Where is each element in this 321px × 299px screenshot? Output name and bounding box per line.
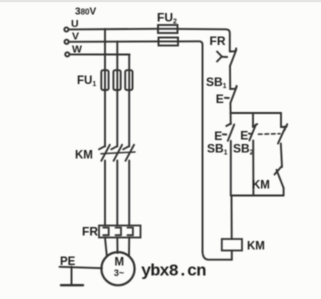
thermal relay FR heater element 1 — [103, 228, 109, 236]
svg-text:SB1: SB1 — [206, 75, 227, 90]
fuse FU2 label — [157, 11, 177, 26]
stop button SB1 NC contact — [230, 86, 237, 103]
thermal relay FR actuator symbol — [217, 52, 227, 62]
wire pole 3 lower — [128, 161, 130, 226]
wire KM coil to bottom rail — [231, 251, 233, 260]
wire SB3 NC to KM aux contact — [281, 144, 282, 168]
thermal relay FR NC contact — [230, 48, 237, 66]
wire heater 2 to motor — [116, 238, 118, 254]
contactor KM coil — [222, 239, 242, 251]
wire bottom collector line — [231, 195, 284, 197]
svg-text:KM: KM — [247, 241, 265, 253]
terminal W — [65, 52, 69, 56]
ground PE symbol — [61, 267, 83, 286]
watermark ybx8.cn — [141, 263, 206, 282]
terminal U — [64, 27, 68, 31]
fuse FU2a (upper, phase U) — [158, 25, 178, 33]
fuse FU1 label — [77, 75, 96, 88]
wire split line — [231, 112, 281, 114]
svg-text:V: V — [72, 31, 79, 43]
motor M 3-phase — [101, 252, 134, 285]
wire pole 1 lower — [104, 161, 106, 226]
svg-text:FR: FR — [82, 225, 98, 239]
stop button SB1 label — [206, 75, 227, 90]
wire split line to SB3 NC lead — [280, 113, 282, 127]
wire phase U horizontal — [69, 28, 159, 31]
jog button SB3 label — [233, 142, 254, 157]
wire drop phase U to FU1a — [104, 29, 106, 147]
jog button SB3 actuator arrow — [253, 124, 257, 127]
svg-text:E: E — [216, 92, 224, 106]
svg-text:380V: 380V — [75, 7, 96, 18]
wire KM aux to bottom line — [283, 188, 285, 196]
wire heater 3 to motor — [128, 238, 130, 257]
jog button SB3 top lead — [252, 113, 254, 127]
wire drop phase V to FU1b — [116, 42, 118, 147]
jog button SB3 NO contact blade — [249, 125, 256, 141]
contactor KM coil label — [247, 241, 265, 253]
svg-text:SB1: SB1 — [207, 142, 228, 157]
thermal relay FR heater label — [82, 225, 98, 239]
svg-text:FR: FR — [210, 34, 226, 48]
wire bottom line to KM coil — [231, 196, 233, 240]
svg-text:FU2: FU2 — [157, 11, 177, 26]
contactor KM main contact pole 3 — [123, 145, 134, 161]
top faint border line — [0, 0, 321, 2]
start button SB2 actuator E — [214, 129, 226, 143]
jog button SB3 actuator E — [240, 129, 251, 143]
wire SB2 to bottom line — [230, 141, 232, 196]
wire SB1 to split node — [229, 103, 231, 113]
thermal relay FR heater box — [99, 226, 141, 238]
svg-text:KM: KM — [252, 180, 270, 192]
start button SB2 NO contact blade — [228, 125, 234, 141]
wire SB3 NO to bottom line — [252, 141, 254, 196]
start button SB2 label — [207, 142, 228, 157]
start button SB2 top lead — [230, 113, 232, 124]
fuse FU1a — [101, 70, 108, 90]
fuse FU1c — [125, 70, 132, 90]
wire drop phase W to FU1c — [128, 55, 130, 147]
contactor KM main contact pole 1 — [99, 145, 110, 161]
svg-text:E: E — [240, 129, 248, 143]
thermal relay FR heater element 2 — [116, 228, 122, 236]
contactor KM linkage bar — [101, 152, 135, 154]
svg-text:3~: 3~ — [114, 268, 124, 278]
svg-text:U: U — [71, 18, 79, 30]
start button SB2 terminal tick — [226, 124, 231, 127]
wire phase W horizontal — [69, 53, 129, 55]
PE label — [60, 256, 76, 268]
svg-text:M: M — [115, 257, 125, 269]
contactor KM aux contact label — [252, 180, 270, 192]
contactor KM main contacts label — [75, 150, 93, 162]
thermal relay FR contact label — [210, 34, 226, 48]
wire FR contact to SB1 — [229, 66, 231, 89]
thermal relay FR heater element 3 — [127, 228, 132, 236]
jog button SB3 NC contact — [278, 124, 287, 143]
stop button SB1 actuator E — [216, 92, 229, 106]
wire PE to motor — [60, 267, 103, 268]
wire from FU2b to left control rail — [178, 41, 203, 251]
svg-text:SB2: SB2 — [233, 142, 254, 157]
svg-text:FU1: FU1 — [77, 75, 96, 88]
contactor KM aux NO contact — [275, 166, 284, 188]
wire from FU2a to control branch top corner — [178, 29, 230, 52]
fuse FU1b — [113, 70, 120, 90]
svg-text:KM: KM — [75, 150, 93, 162]
wire left rail bottom bend — [203, 252, 232, 260]
value label 380V — [75, 7, 96, 18]
wire pole 2 lower — [116, 161, 118, 226]
wire heater 1 to motor — [105, 238, 107, 256]
svg-text:ybx8.cn: ybx8.cn — [141, 263, 206, 282]
contactor KM main contact pole 2 — [111, 145, 122, 161]
fuse FU2b (lower, phase V) — [159, 38, 179, 46]
wire phase V horizontal — [69, 40, 159, 42]
mechanical linkage dashed line SB3 — [259, 133, 281, 136]
terminal V — [65, 40, 69, 44]
